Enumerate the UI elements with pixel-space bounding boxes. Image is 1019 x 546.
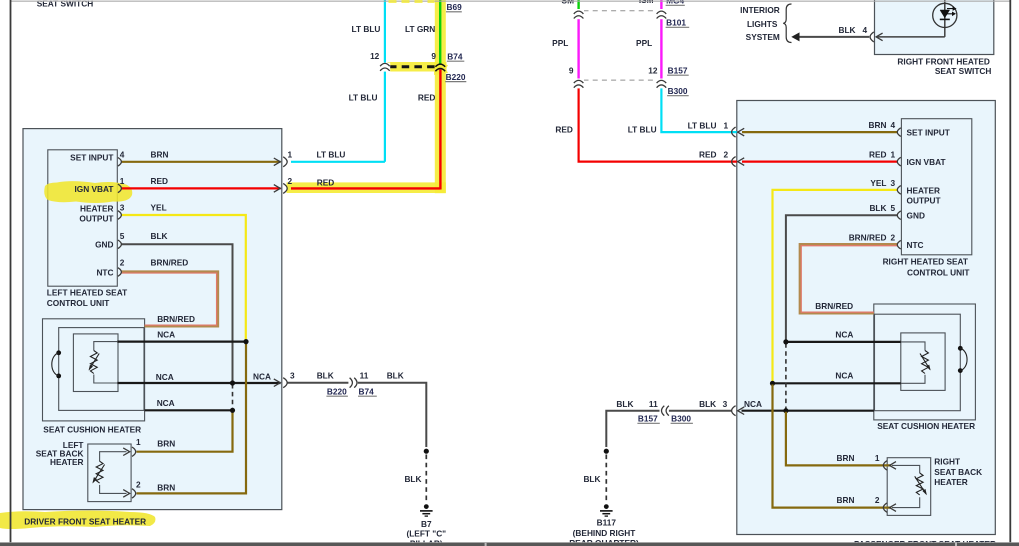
svg-text:1: 1 [724,120,729,130]
svg-text:B220: B220 [446,72,466,82]
junction dot NCA3/BRN [230,408,235,413]
wire LT GRN vertical to B69 [439,0,441,65]
svg-text:LIGHTS: LIGHTS [747,19,778,29]
svg-text:3: 3 [290,371,295,381]
svg-text:LT BLU: LT BLU [349,93,378,103]
inline connector )) at B220/B74 [348,378,357,388]
svg-text:4: 4 [120,149,125,159]
dashed link line B157/B300 connector pair [584,79,657,81]
left unit outer edge connectors with arrows [274,157,287,388]
right unit outer edge connectors with arrows [732,127,745,167]
svg-text:HEATER: HEATER [907,185,941,195]
wire LT BLU from pin 1 to vertical riser [291,0,385,162]
svg-text:NTC: NTC [907,240,924,250]
svg-text:B117: B117 [597,517,617,527]
dashed link line top connector pair [584,10,657,12]
svg-text:BLK: BLK [151,231,168,241]
highlighter blob over DRIVER FRONT SEAT HEATER label [0,511,155,530]
svg-text:RED: RED [317,177,335,187]
left seat back pin connectors with arrows [123,447,136,498]
wire LT BLU from B300 to right unit [661,86,736,132]
svg-text:SEAT BACK: SEAT BACK [934,467,982,477]
svg-text:2: 2 [136,479,141,489]
svg-text:NCA: NCA [835,330,853,340]
wire BRN pin4 right unit [742,131,898,133]
wire RED pin1 left unit [122,187,281,189]
svg-text:SYSTEM: SYSTEM [746,32,780,42]
right frame border [1009,0,1011,543]
dashed jumper NCA2 to NCA3 [232,384,234,409]
svg-text:BRN: BRN [157,439,175,449]
dashed BLK drop to ground B7 [425,455,427,502]
svg-text:B157: B157 [668,66,688,76]
left cushion resistor arrow [89,354,99,370]
right cushion resistor R3 leads [901,342,925,383]
svg-text:2: 2 [288,176,293,186]
svg-text:NCA: NCA [835,371,853,381]
left seat back heater internal leads [100,452,127,494]
svg-text:BLK: BLK [387,371,404,381]
svg-text:12: 12 [370,51,380,61]
left seat cushion heater outer box [43,319,145,421]
wire BRN pin4 left unit [122,161,281,163]
inline connector arcs on LT BLU riser [380,63,391,72]
svg-text:SET INPUT: SET INPUT [907,127,950,137]
svg-text:BRN: BRN [151,149,169,159]
svg-text:NCA: NCA [157,330,175,340]
svg-text:4: 4 [863,25,868,35]
right unit inner pin connectors ( [897,128,901,249]
junction dot YEL/NCA2 right [770,381,775,386]
right cushion resistor R3 zigzag [922,351,929,374]
svg-text:5: 5 [120,231,125,241]
seat switch box edge connector with arrow [870,32,883,42]
svg-text:(BEHIND RIGHT: (BEHIND RIGHT [573,528,636,538]
svg-text:GND: GND [907,211,925,221]
left heated seat control unit U1 box [48,150,118,286]
inline connector arcs at B74/B220 junction [435,64,445,71]
left seat back resistor arrow [93,465,104,483]
svg-text:LT BLU: LT BLU [688,120,717,130]
left seat cushion heater middle loop box [59,328,144,411]
svg-text:RIGHT HEATED SEAT: RIGHT HEATED SEAT [883,257,968,267]
right seat cushion heater middle loop box [875,314,961,411]
svg-text:NCA: NCA [157,398,175,408]
highlighter band on dashed inline wire 12-9 [388,62,447,72]
right seat back resistor R4 zigzag [916,473,923,495]
wire RED from B157 pin9 to right unit [579,86,737,162]
svg-text:3: 3 [723,399,728,409]
toolbar separator left [485,543,487,546]
right seat back pin connectors with arrows [883,461,896,513]
svg-text:B300: B300 [671,414,691,424]
svg-text:DRIVER FRONT SEAT HEATER: DRIVER FRONT SEAT HEATER [24,517,146,527]
right seat cushion heater inner element box [901,333,945,391]
svg-text:LT BLU: LT BLU [352,24,381,34]
right seat back heater box [887,458,931,516]
inline connector arcs left PPL riser top [573,10,584,19]
svg-text:YEL: YEL [870,178,886,188]
interior lights system brace [783,4,791,43]
svg-text:NCA: NCA [744,399,762,409]
svg-text:5: 5 [891,203,896,213]
svg-text:SEAT CUSHION HEATER: SEAT CUSHION HEATER [43,425,141,435]
svg-text:LEFT HEATED SEAT: LEFT HEATED SEAT [47,288,127,298]
left frame border [10,0,12,543]
svg-text:HEATER: HEATER [934,477,968,487]
svg-text:3: 3 [891,178,896,188]
svg-text:SET INPUT: SET INPUT [70,152,113,162]
svg-text:BRN/RED: BRN/RED [849,233,887,243]
wire BLK from right pin3 to B157/B300 [606,411,731,447]
svg-text:LT BLU: LT BLU [628,125,657,135]
svg-text:11: 11 [360,371,369,381]
svg-text:SEAT CUSHION HEATER: SEAT CUSHION HEATER [877,421,975,431]
svg-text:BLK: BLK [839,25,856,35]
wire PPL left riser [577,17,579,79]
svg-text:BRN/RED: BRN/RED [157,314,195,324]
svg-text:B157: B157 [638,414,658,424]
dashed BLK inline wire 12 to 9 [389,65,437,68]
inline connector (( at B157/B300 right [660,406,669,416]
svg-text:9: 9 [431,51,436,61]
svg-text:PPL: PPL [636,38,652,48]
wire NCA2 right cushion heater [773,382,901,384]
faded highlighter dashes at top edge [389,0,435,3]
svg-text:BRN: BRN [869,120,887,130]
top grey rule [11,1,1010,2]
dashed jumper NCA1 to NCA3 right [785,343,787,409]
wire BRN/RED pin2 right unit [800,245,898,314]
wire RED from pin 2 to B220 riser [291,69,440,189]
svg-text:3: 3 [120,203,125,213]
svg-text:NCA: NCA [253,372,271,382]
svg-text:2: 2 [120,258,125,268]
svg-text:BRN: BRN [837,495,855,505]
svg-text:2: 2 [875,495,880,505]
svg-text:1: 1 [120,176,125,186]
driver front seat heater outer box [23,129,282,510]
svg-text:(LEFT "C": (LEFT "C" [406,529,446,539]
svg-text:BLK: BLK [583,474,600,484]
highlighter band on LT GRN/RED vertical wire [435,0,446,193]
wire BRN to left seat back pin2 [137,343,247,494]
svg-text:B74: B74 [447,52,463,62]
svg-text:GND: GND [95,240,113,250]
right heated seat control unit U2 box [901,119,971,255]
junction dot B7 wire [424,449,429,454]
wire BLK pin5 left unit [122,244,233,382]
svg-text:PPL: PPL [552,38,568,48]
passenger front seat heater outer box [737,101,996,535]
svg-text:INTERIOR: INTERIOR [740,5,780,15]
svg-text:RED: RED [869,150,887,160]
svg-text:LT GRN: LT GRN [405,24,435,34]
svg-text:12: 12 [648,66,658,76]
svg-text:BLK: BLK [404,474,421,484]
right cushion arc jumper with dots [958,346,963,351]
svg-text:BLK: BLK [317,371,334,381]
wire NCA1 left cushion heater [117,341,246,343]
left cushion arc jumper with dots [56,350,61,355]
junction dot B117 wire [604,449,609,454]
junction dot NCA3/BRN right [783,408,788,413]
bottom toolbar [0,543,1019,546]
svg-text:RED: RED [555,125,573,135]
wire PPL right riser [660,0,662,79]
right pin3 exit connector with arrow [732,406,745,416]
wire BRN to right seat back pin1 [786,412,892,466]
dashed BLK drop to ground B117 [605,455,607,502]
svg-text:11: 11 [649,399,658,409]
svg-text:1: 1 [288,149,293,159]
wire BLK interior lights [798,36,869,38]
svg-text:9: 9 [569,66,574,76]
svg-text:B101: B101 [666,18,686,28]
svg-text:RED: RED [418,93,436,103]
highlighter blob over IGN VBAT label [44,181,132,203]
left seat cushion heater inner element box [73,334,118,392]
inline connector arcs right PPL riser top [656,10,667,19]
toolbar separator right [955,543,957,546]
ground symbol B117 [600,504,613,516]
svg-text:NTC: NTC [96,267,113,277]
svg-text:HEATER: HEATER [50,457,84,467]
svg-text:RED: RED [699,150,717,160]
wire NCA1 right cushion heater [786,341,901,343]
svg-text:HEATER: HEATER [80,204,114,214]
left unit pin connectors ) [118,158,122,277]
svg-text:OUTPUT: OUTPUT [79,214,113,224]
svg-text:BRN: BRN [837,453,855,463]
svg-text:2: 2 [724,150,729,160]
svg-text:B300: B300 [668,86,688,96]
svg-text:1: 1 [891,150,896,160]
svg-text:RIGHT: RIGHT [934,457,960,467]
wire BRN to right seat back pin2 [773,384,892,507]
svg-text:NCA: NCA [156,372,174,382]
svg-text:LT BLU: LT BLU [317,149,346,159]
left cushion resistor R1 zigzag [90,351,97,374]
wire YEL pin3 left unit [122,215,246,341]
interior lights filled arrow [791,32,799,41]
highlighter band on RED horizontal wire to pin 2 [287,182,446,193]
svg-text:CONTROL UNIT: CONTROL UNIT [47,298,110,308]
wire YEL pin3 right unit [773,190,898,382]
left seat back resistor R2 zigzag [96,461,103,483]
svg-text:IGN VBAT: IGN VBAT [907,157,946,167]
svg-text:SEAT SWITCH: SEAT SWITCH [935,66,992,76]
junction dot BLK/NCA1 right [783,339,788,344]
right seat back heater internal leads [892,465,920,507]
svg-text:4: 4 [891,120,896,130]
svg-text:BRN: BRN [157,483,175,493]
svg-text:BLK: BLK [869,203,886,213]
svg-text:IGN VBAT: IGN VBAT [74,184,113,194]
inline connector arcs left riser B157 pin9 [573,79,584,88]
svg-text:OUTPUT: OUTPUT [907,195,941,205]
svg-text:RED: RED [151,176,169,186]
svg-text:1: 1 [136,437,141,447]
wire BRN/RED pin2 left unit [122,272,218,326]
svg-text:BRN/RED: BRN/RED [815,301,853,311]
junction dot YEL/NCA1 [243,339,248,344]
wire NCA2 left cushion heater to pin 3 [117,382,280,384]
left cushion resistor R1 leads [94,342,118,383]
svg-text:BLK: BLK [699,399,716,409]
svg-text:1: 1 [875,453,880,463]
right cushion resistor arrow [920,354,930,370]
svg-text:YEL: YEL [151,203,167,213]
junction dot BLK/NCA2 [230,380,235,385]
wire BLK from pin3 exit to B220/B74 connector [287,383,426,447]
svg-text:B7: B7 [421,519,432,529]
seat switch internal wire [877,0,945,37]
inline connector arcs right riser B300 pin12 [656,79,667,88]
svg-text:2: 2 [891,233,896,243]
ground symbol B7 [420,504,433,516]
wire RED pin1 right unit [742,161,898,163]
svg-text:B74: B74 [359,387,375,397]
wire NCA3 left cushion heater [145,409,233,411]
wire NCA3 right cushion heater from pin3 [742,410,874,412]
svg-text:CONTROL UNIT: CONTROL UNIT [907,267,970,277]
svg-text:BRN/RED: BRN/RED [151,258,189,268]
svg-text:BLK: BLK [616,399,633,409]
wire BRN to left seat back pin1 [137,411,233,452]
svg-text:B220: B220 [327,387,347,397]
wire BLK pin5 right unit [786,215,898,341]
right seat back resistor arrow [915,476,926,494]
highlighter bulge at B74/B220 junction [434,63,448,75]
wire LT GRN stub top of left PPL riser [577,0,579,9]
right seat cushion heater outer box [874,304,976,420]
LED indicator D1 [933,3,957,27]
svg-text:B69: B69 [447,2,463,12]
right front heated seat switch box [875,0,994,55]
left seat back heater box [88,444,131,502]
